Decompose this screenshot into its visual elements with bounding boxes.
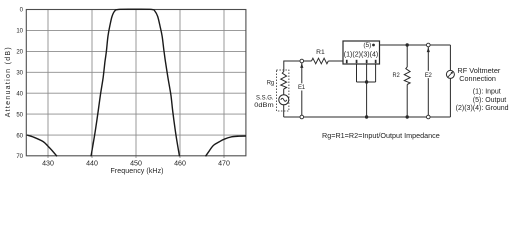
dashed generator box — [276, 70, 289, 111]
E2 measurement line — [427, 47, 429, 115]
svg-text:460: 460 — [174, 161, 186, 168]
svg-text:440: 440 — [86, 161, 98, 168]
filter ground lead pin4 — [375, 64, 377, 83]
resistor R2 lead top — [406, 45, 408, 67]
pin 5 wire dot — [372, 44, 375, 47]
bottom rail wire — [284, 116, 451, 118]
junction dot R2 top — [406, 43, 409, 46]
filter ground bus bar — [357, 81, 376, 83]
svg-text:Input: Input — [485, 88, 501, 95]
svg-text:10: 10 — [16, 29, 23, 35]
svg-text:50: 50 — [16, 112, 23, 118]
svg-text:470: 470 — [218, 161, 230, 168]
resistor R2 lead bottom — [406, 85, 408, 118]
junction dot R2 bottom — [406, 115, 409, 118]
label E1 — [297, 83, 306, 90]
response curve main passband — [91, 9, 180, 156]
E2 arrowhead — [427, 47, 430, 52]
svg-text:(5):: (5): — [473, 97, 484, 104]
RF voltmeter needle arrowhead — [451, 71, 454, 74]
junction dot ground bottom — [365, 115, 368, 118]
grid horizontals 10-60 dB — [26, 30, 246, 135]
response curve left stopband branch — [27, 135, 57, 156]
filter box U1 — [343, 41, 380, 64]
resistor R2 — [404, 67, 410, 85]
svg-text:40: 40 — [16, 91, 23, 97]
svg-text:(2)(3)(4):: (2)(3)(4): — [456, 105, 484, 112]
svg-text:Frequency (kHz): Frequency (kHz) — [111, 168, 164, 175]
svg-text:20: 20 — [16, 50, 23, 56]
svg-text:Ground: Ground — [485, 105, 508, 112]
svg-text:(5): (5) — [363, 42, 371, 49]
junction dot ground bus — [365, 80, 368, 83]
svg-text:S.S.G.: S.S.G. — [256, 94, 274, 101]
svg-text:(1)(2)(3)(4): (1)(2)(3)(4) — [344, 51, 379, 58]
svg-text:E1: E1 — [298, 85, 306, 91]
svg-text:E2: E2 — [425, 73, 433, 79]
response curve right stopband branch — [206, 136, 247, 156]
svg-text:0dBm: 0dBm — [254, 102, 273, 109]
svg-text:R2: R2 — [393, 72, 401, 79]
label E2 — [424, 71, 433, 78]
filter ground lead pin2 — [356, 64, 358, 83]
svg-text:30: 30 — [16, 71, 23, 77]
svg-text:Rg: Rg — [267, 79, 275, 86]
x axis tick labels — [42, 161, 230, 168]
wire top left from generator to filter input — [284, 61, 312, 72]
wire generator to bottom rail — [283, 105, 285, 117]
node E1 top open circle — [300, 59, 304, 63]
node E2 top open circle — [427, 43, 431, 47]
generator circle S.S.G. — [279, 95, 289, 105]
resistor R1 — [312, 58, 329, 64]
wire filter pin5 output rail — [374, 44, 451, 46]
node E1 bottom open circle — [300, 115, 304, 119]
E1 arrowhead — [300, 63, 303, 68]
y axis tick labels — [16, 8, 23, 161]
svg-text:RF Voltmeter: RF Voltmeter — [457, 68, 501, 75]
grid verticals 430-470 kHz — [48, 10, 224, 159]
sine wave inside generator — [281, 98, 287, 101]
svg-text:0: 0 — [20, 8, 24, 14]
node E2 bottom open circle — [427, 115, 431, 119]
svg-text:(1):: (1): — [473, 88, 484, 95]
resistor Rg — [281, 72, 287, 90]
filter ground lead pin3 to bottom rail — [366, 64, 368, 118]
E1 measurement line — [301, 63, 303, 115]
svg-text:60: 60 — [16, 133, 23, 139]
svg-text:Connection: Connection — [459, 76, 496, 83]
plot frame — [26, 10, 246, 156]
wire R1 right side to filter box — [328, 60, 343, 62]
wire Rg to generator — [283, 89, 285, 95]
RF voltmeter circle — [446, 70, 454, 78]
svg-text:Output: Output — [485, 97, 506, 104]
filter pin ticks — [346, 60, 377, 63]
svg-text:Attenuation (dB): Attenuation (dB) — [5, 47, 12, 117]
RF voltmeter needle — [448, 72, 452, 77]
svg-text:Rg=R1=R2=Input/Output Impedanc: Rg=R1=R2=Input/Output Impedance — [322, 133, 440, 140]
wire voltmeter branch upper — [449, 45, 451, 70]
svg-text:R1: R1 — [316, 49, 325, 56]
svg-text:430: 430 — [42, 161, 54, 168]
svg-text:70: 70 — [16, 154, 23, 160]
svg-text:450: 450 — [130, 161, 142, 168]
wire voltmeter branch lower — [449, 78, 451, 117]
